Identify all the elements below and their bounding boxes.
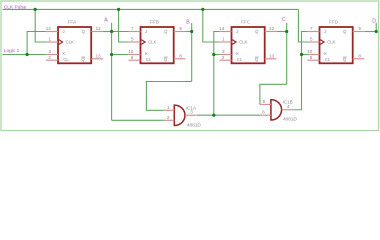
- IC1A body: [174, 105, 185, 125]
- svg-text:4081D: 4081D: [283, 117, 297, 122]
- flip-flop FFA (4027 JK): [46, 20, 103, 64]
- junction Logic 1: [26, 53, 29, 56]
- svg-text:2: 2: [167, 115, 170, 120]
- svg-text:1: 1: [222, 37, 225, 42]
- IC1B pin 4 (output): [282, 109, 294, 111]
- wire AB to FFC K: [214, 54, 220, 56]
- FFD pin Qbar (pin 8): [353, 58, 365, 60]
- svg-text:5: 5: [310, 37, 313, 42]
- svg-text:9: 9: [358, 26, 361, 31]
- FFD pin J (pin 7): [308, 31, 320, 33]
- svg-text:2: 2: [222, 55, 225, 60]
- FFC pin J (pin 14): [220, 31, 232, 33]
- border frame: [1, 1, 379, 131]
- AND gate IC1B (4081D): [260, 99, 298, 121]
- FFC pin Qbar (pin 13): [265, 58, 277, 60]
- FFB pin CL (pin 6): [129, 59, 141, 61]
- svg-text:CLK: CLK: [148, 40, 156, 45]
- IC1B body: [271, 100, 282, 120]
- AND gate IC1A (4081D): [163, 105, 201, 127]
- wire node A to IC1A input 2: [112, 119, 164, 121]
- svg-text:J: J: [145, 29, 147, 34]
- svg-text:12: 12: [96, 26, 102, 31]
- wire node A to FFB J: [112, 31, 129, 33]
- svg-text:14: 14: [46, 26, 52, 31]
- svg-text:3: 3: [49, 49, 52, 54]
- flip-flop FFC (4027 JK): [219, 20, 276, 64]
- IC1B pin 5: [260, 103, 271, 105]
- svg-text:1: 1: [167, 105, 170, 110]
- svg-text:13: 13: [96, 54, 102, 59]
- FFC pin CLK (pin 1): [220, 41, 232, 43]
- svg-text:CL: CL: [146, 57, 152, 62]
- svg-text:Q: Q: [164, 57, 168, 62]
- svg-text:14: 14: [219, 26, 225, 31]
- junction clock rail / FFC clk: [201, 8, 204, 11]
- svg-text:8: 8: [358, 54, 361, 59]
- svg-text:12: 12: [269, 26, 275, 31]
- svg-text:B: B: [186, 19, 190, 25]
- wire Logic 1 up to FFA J: [27, 32, 46, 55]
- svg-text:CL: CL: [325, 57, 331, 62]
- FFA pin CL (pin 2): [46, 59, 58, 61]
- wire node B vertical: [191, 23, 193, 81]
- junction node A / J row: [110, 30, 113, 33]
- svg-text:3: 3: [222, 49, 225, 54]
- junction ABC / FFD K: [300, 53, 303, 56]
- svg-text:CL: CL: [63, 57, 69, 62]
- svg-text:5: 5: [131, 37, 134, 42]
- FFC pin K (pin 3): [220, 54, 232, 56]
- junction node A / K row: [110, 53, 113, 56]
- IC1A pin 2: [163, 119, 174, 121]
- svg-text:4: 4: [287, 104, 290, 109]
- FFD pin Q (pin 9): [353, 31, 365, 33]
- FFB pin Qbar (pin 8): [174, 58, 186, 60]
- wire FFC clk drop: [203, 9, 220, 42]
- svg-text:K: K: [63, 51, 66, 56]
- svg-text:Q: Q: [343, 29, 347, 34]
- FFC body: [232, 27, 265, 63]
- wire FFA Q to node A: [103, 31, 112, 33]
- wire FFB clk drop: [119, 9, 129, 42]
- svg-text:10: 10: [307, 49, 313, 54]
- svg-text:CL: CL: [237, 57, 243, 62]
- svg-text:1: 1: [49, 37, 52, 42]
- svg-text:CLK: CLK: [239, 40, 247, 45]
- wire FFC Q to node C: [276, 31, 286, 33]
- FFD pin CL (pin 6): [308, 59, 320, 61]
- FFD clock triangle: [320, 40, 324, 45]
- junction node C: [285, 30, 288, 33]
- FFB pin J (pin 7): [129, 31, 141, 33]
- wire FFD clk drop: [298, 9, 307, 42]
- svg-text:CLK: CLK: [66, 40, 74, 45]
- svg-text:FFD: FFD: [329, 20, 339, 25]
- FFA pin K (pin 3): [46, 54, 58, 56]
- FFA pin Q (pin 12): [91, 31, 103, 33]
- svg-text:A: A: [104, 18, 108, 24]
- FFB pin CLK (pin 5): [129, 41, 141, 43]
- wire node B to IC1A input 1: [146, 82, 191, 111]
- junction node B: [190, 30, 193, 33]
- wire clock rail: [3, 8, 299, 10]
- FFA pin Qbar (pin 13): [91, 58, 103, 60]
- wire IC1B output up to FFD J: [293, 32, 307, 110]
- svg-text:Q: Q: [255, 29, 259, 34]
- junction AB / FFC K: [212, 53, 215, 56]
- svg-text:6: 6: [310, 55, 313, 60]
- wire node A vertical: [111, 23, 113, 121]
- FFC pin CL (pin 2): [220, 59, 232, 61]
- svg-text:7: 7: [131, 26, 134, 31]
- FFB clock triangle: [141, 40, 145, 45]
- svg-text:CLK Pulse: CLK Pulse: [4, 4, 27, 10]
- svg-text:9: 9: [179, 26, 182, 31]
- svg-text:FFA: FFA: [68, 20, 77, 25]
- FFC clock triangle: [232, 40, 236, 45]
- svg-text:FFB: FFB: [150, 20, 159, 25]
- wire AB up to FFC J: [214, 32, 220, 116]
- svg-text:2: 2: [48, 55, 51, 60]
- svg-text:Q: Q: [81, 57, 85, 62]
- junction AB row: [212, 114, 215, 117]
- svg-text:K: K: [145, 51, 148, 56]
- svg-text:J: J: [324, 29, 326, 34]
- svg-text:Q: Q: [164, 29, 168, 34]
- svg-text:5: 5: [263, 99, 266, 104]
- svg-text:7: 7: [310, 26, 313, 31]
- wire FFD Q to node D: [364, 31, 376, 33]
- svg-text:Q: Q: [343, 57, 347, 62]
- wire node A to FFB K: [112, 54, 129, 56]
- svg-text:J: J: [63, 29, 65, 34]
- FFA pin J (pin 14): [46, 31, 58, 33]
- svg-text:6: 6: [131, 55, 134, 60]
- IC1A pin 3 (output): [185, 114, 197, 116]
- FFD pin K (pin 10): [308, 54, 320, 56]
- svg-text:Logic 1: Logic 1: [4, 48, 20, 54]
- svg-text:J: J: [236, 29, 238, 34]
- FFA clock triangle: [59, 40, 63, 45]
- svg-text:4081D: 4081D: [187, 122, 201, 127]
- flip-flop FFD (4027 JK): [307, 20, 364, 64]
- svg-text:Q: Q: [255, 57, 259, 62]
- FFB body: [141, 27, 174, 63]
- svg-text:IC1B: IC1B: [283, 100, 293, 105]
- junction clock rail / FFB clk: [117, 8, 120, 11]
- IC1B pin 6: [260, 114, 271, 116]
- FFD body: [320, 27, 353, 63]
- svg-text:Q: Q: [82, 29, 86, 34]
- wire ABC to FFD K: [302, 54, 308, 56]
- wire Logic 1 to FFA K: [3, 54, 47, 56]
- svg-text:C: C: [282, 17, 286, 23]
- FFA body: [58, 27, 91, 63]
- wire FFB Q to node B: [185, 31, 191, 33]
- svg-text:K: K: [236, 51, 239, 56]
- wire IC1A output AB row: [197, 114, 260, 116]
- FFB pin K (pin 10): [129, 54, 141, 56]
- FFB pin Q (pin 9): [174, 31, 186, 33]
- wire FFA clk drop: [35, 9, 46, 42]
- svg-text:D: D: [372, 19, 376, 25]
- svg-text:10: 10: [128, 49, 134, 54]
- FFA pin CLK (pin 1): [46, 41, 58, 43]
- svg-text:FFC: FFC: [241, 20, 251, 25]
- svg-text:IC1A: IC1A: [186, 106, 197, 111]
- wire node C to IC1B input 5: [260, 84, 287, 104]
- svg-text:13: 13: [269, 54, 275, 59]
- svg-text:6: 6: [262, 109, 265, 114]
- IC1A pin 1: [163, 109, 174, 111]
- flip-flop FFB (4027 JK): [128, 20, 185, 64]
- junction node D: [375, 30, 378, 33]
- svg-text:CLK: CLK: [327, 40, 335, 45]
- svg-text:8: 8: [179, 54, 182, 59]
- svg-text:K: K: [324, 51, 327, 56]
- FFC pin Q (pin 12): [265, 31, 277, 33]
- junction clock rail / FFA clk: [34, 8, 37, 11]
- wire node C vertical: [286, 23, 288, 85]
- FFD pin CLK (pin 5): [308, 41, 320, 43]
- wire node D label stub: [375, 23, 377, 32]
